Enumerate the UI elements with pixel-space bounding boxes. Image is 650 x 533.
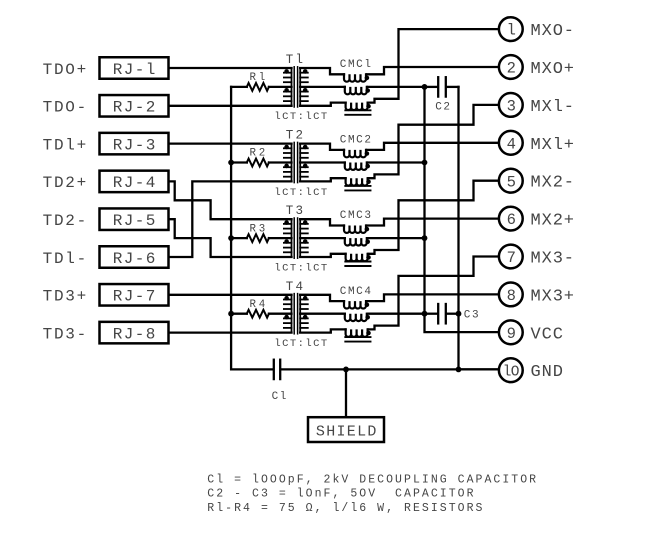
svg-text:8: 8 <box>507 287 516 305</box>
svg-text:Cl = lOOOpF, 2kV DECOUPLING CA: Cl = lOOOpF, 2kV DECOUPLING CAPACITOR <box>207 473 538 486</box>
svg-text:T4: T4 <box>286 280 305 294</box>
svg-text:GND: GND <box>531 363 564 382</box>
svg-text:TD3-: TD3- <box>43 325 88 343</box>
svg-text:TDl+: TDl+ <box>43 136 88 154</box>
svg-text:RJ-7: RJ-7 <box>113 288 157 306</box>
svg-text:R4: R4 <box>250 299 269 311</box>
svg-text:VCC: VCC <box>531 325 564 344</box>
svg-text:MXl+: MXl+ <box>531 136 575 155</box>
svg-text:TDO-: TDO- <box>43 99 88 117</box>
svg-text:Cl: Cl <box>272 391 288 403</box>
svg-text:lCT:lCT: lCT:lCT <box>274 111 328 123</box>
svg-text:MX2+: MX2+ <box>531 212 575 231</box>
svg-text:MX3-: MX3- <box>531 250 575 269</box>
svg-text:TDO+: TDO+ <box>43 61 88 79</box>
svg-text:SHIELD: SHIELD <box>316 423 378 440</box>
svg-text:9: 9 <box>507 325 516 343</box>
svg-text:l: l <box>507 22 516 40</box>
svg-text:C2: C2 <box>435 101 451 113</box>
svg-text:MXl-: MXl- <box>531 98 575 117</box>
svg-text:Rl: Rl <box>250 72 269 84</box>
svg-text:lCT:lCT: lCT:lCT <box>274 262 328 274</box>
svg-text:T2: T2 <box>286 129 305 143</box>
svg-text:lCT:lCT: lCT:lCT <box>274 187 328 199</box>
svg-text:CMCl: CMCl <box>340 59 373 71</box>
svg-text:lCT:lCT: lCT:lCT <box>274 338 328 350</box>
svg-text:C3: C3 <box>464 310 480 322</box>
svg-text:RJ-6: RJ-6 <box>113 250 157 268</box>
svg-text:5: 5 <box>507 173 516 191</box>
svg-text:R3: R3 <box>250 223 269 235</box>
svg-text:Tl: Tl <box>286 53 305 67</box>
svg-text:TD2-: TD2- <box>43 212 88 230</box>
svg-text:lO: lO <box>503 364 519 380</box>
svg-text:MXO-: MXO- <box>531 22 575 41</box>
svg-text:6: 6 <box>507 211 516 229</box>
svg-text:4: 4 <box>507 135 516 153</box>
svg-text:CMC4: CMC4 <box>340 286 373 298</box>
svg-text:RJ-4: RJ-4 <box>113 174 157 192</box>
svg-text:2: 2 <box>507 60 516 78</box>
svg-text:RJ-l: RJ-l <box>113 61 157 79</box>
svg-text:RJ-2: RJ-2 <box>113 99 157 117</box>
svg-text:CMC2: CMC2 <box>340 135 373 147</box>
svg-text:TD3+: TD3+ <box>43 288 88 306</box>
svg-text:MXO+: MXO+ <box>531 60 575 79</box>
svg-text:R2: R2 <box>250 148 269 160</box>
svg-text:T3: T3 <box>286 204 305 218</box>
svg-text:TD2+: TD2+ <box>43 174 88 192</box>
svg-text:MX3+: MX3+ <box>531 287 575 306</box>
svg-text:TDl-: TDl- <box>43 250 88 268</box>
svg-text:7: 7 <box>507 249 516 267</box>
svg-text:RJ-3: RJ-3 <box>113 136 157 154</box>
svg-text:CMC3: CMC3 <box>340 210 373 222</box>
svg-text:Rl-R4 = 75 Ω, l/l6 W, RESISTOR: Rl-R4 = 75 Ω, l/l6 W, RESISTORS <box>207 502 484 515</box>
svg-text:RJ-8: RJ-8 <box>113 325 157 343</box>
svg-text:RJ-5: RJ-5 <box>113 212 157 230</box>
svg-text:MX2-: MX2- <box>531 174 575 193</box>
svg-text:C2 - C3 = lOnF, 5OV CAPACITOR: C2 - C3 = lOnF, 5OV CAPACITOR <box>207 488 475 501</box>
svg-text:3: 3 <box>507 98 516 116</box>
